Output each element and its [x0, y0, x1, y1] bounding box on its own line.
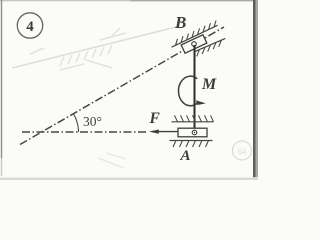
ground line at A: [170, 140, 213, 142]
moment arrowhead: [196, 100, 206, 105]
pin A: [192, 130, 197, 135]
ghost bleed-through hatch blob: [30, 28, 126, 70]
scan edge top: [0, 0, 130, 1]
lower guide hatching: [197, 40, 222, 56]
slider block B: [181, 35, 207, 53]
ghost bleed-through bottom texture: [98, 153, 126, 168]
svg-text:F: F: [149, 110, 161, 127]
moment arc M: [178, 76, 198, 106]
inclined dash-dot centerline 30deg: [20, 27, 224, 145]
top guide line at A: [172, 121, 214, 123]
svg-text:B: B: [174, 13, 186, 32]
paper background: [0, 0, 258, 180]
scan edge bottom: [0, 177, 258, 180]
circled figure number 4: [17, 13, 42, 38]
scan edge right: [253, 0, 256, 180]
svg-text:A: A: [180, 148, 191, 164]
watermark circle 64 bottom right: [233, 141, 252, 160]
svg-text:M: M: [201, 76, 217, 93]
force F arrowhead: [149, 130, 159, 134]
ghost bleed-through line: [12, 26, 180, 68]
top guide hatching at A: [175, 115, 214, 122]
pin B: [192, 42, 197, 47]
angle arc: [74, 115, 79, 133]
upper guide line at B: [172, 25, 218, 47]
svg-text:30°: 30°: [83, 114, 102, 129]
slider block A: [178, 128, 207, 137]
svg-text:64: 64: [238, 147, 248, 157]
rod AB: [194, 45, 196, 132]
ground hatching at A: [173, 141, 209, 148]
svg-text:4: 4: [26, 19, 34, 35]
upper guide hatching: [176, 21, 217, 46]
force F line: [152, 131, 180, 133]
lower guide line at B: [195, 38, 226, 51]
horizontal dash-dot centerline: [22, 131, 148, 133]
scan edge left: [1, 0, 2, 158]
